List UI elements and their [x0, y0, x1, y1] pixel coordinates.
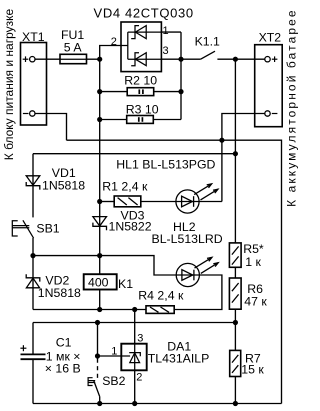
svg-text:47 к: 47 к — [244, 295, 267, 309]
node R7 bottom — [233, 401, 238, 406]
svg-text:SB2: SB2 — [102, 374, 125, 388]
svg-text:R2 10: R2 10 — [124, 74, 157, 88]
emission arrows HL1 — [194, 184, 211, 195]
wire relay coil bottom — [99, 290, 101, 310]
polarity sign XT1 minus — [23, 113, 29, 115]
wire SB1 rail through VD2 to relay rail — [32, 256, 34, 310]
wire R5 to R6 — [234, 267, 236, 278]
diode VD4 upper — [131, 26, 139, 39]
wire pin3 — [161, 58, 181, 60]
resistor R6 — [229, 278, 241, 309]
diode VD3 — [93, 217, 107, 231]
wire R6 to R7 — [234, 309, 236, 350]
svg-text:3: 3 — [163, 45, 169, 57]
power marks resistor R4 — [150, 307, 159, 312]
node relay bottom — [97, 307, 102, 312]
power marks resistor R7 — [232, 355, 238, 363]
resistor R3 — [127, 116, 154, 124]
terminal block XT1 — [21, 43, 47, 126]
diode VD4 lower — [131, 53, 139, 66]
wire DA1 pin2 down — [134, 370, 136, 403]
svg-text:HL1 BL-L513PGD: HL1 BL-L513PGD — [116, 157, 215, 171]
power marks resistor R1 — [118, 198, 239, 373]
svg-text:R5*: R5* — [243, 242, 264, 256]
terminal block XT2 — [255, 45, 283, 127]
internal common cathode bus — [127, 32, 129, 59]
wire XT1 minus drop — [35, 114, 67, 141]
fuse FU1 — [60, 54, 87, 63]
terminal XT2 minus — [265, 111, 270, 116]
svg-text:C1: C1 — [56, 335, 72, 349]
svg-text:15 к: 15 к — [241, 362, 264, 376]
polarity sign XT2 plus — [272, 58, 278, 60]
terminal XT1 minus — [30, 111, 35, 116]
wire R1 left — [100, 201, 115, 203]
wire SB2 bottom — [99, 397, 101, 404]
svg-text:3: 3 — [137, 333, 143, 345]
node R1 left — [97, 199, 102, 204]
node R6/R7 divider — [233, 320, 238, 325]
svg-text:5 A: 5 A — [64, 40, 83, 54]
svg-text:K1.1: K1.1 — [195, 34, 220, 48]
svg-text:VD4 42CTQ030: VD4 42CTQ030 — [94, 6, 194, 21]
LED HL2 — [176, 257, 218, 286]
svg-text:BL-L513LRD: BL-L513LRD — [152, 232, 223, 246]
node DA1 pin1 — [95, 353, 100, 358]
svg-text:1N5818: 1N5818 — [42, 178, 85, 192]
resistor R4 — [146, 306, 174, 314]
svg-text:SB1: SB1 — [36, 221, 59, 235]
node minus rail x XT2 minus — [219, 138, 224, 143]
svg-text:1 к: 1 к — [245, 255, 261, 269]
node K1.1 out / XT2+ — [233, 57, 238, 62]
wire pin1 — [161, 31, 181, 33]
relay coil K1 — [84, 274, 117, 289]
svg-text:× 16 В: × 16 В — [45, 362, 81, 376]
svg-text:1: 1 — [163, 25, 169, 37]
wire C1 rail — [33, 322, 235, 324]
wire relay rail — [33, 309, 146, 311]
resistor R5 — [229, 243, 241, 267]
svg-text:TL431AILP: TL431AILP — [148, 351, 210, 365]
svg-text:R3 10: R3 10 — [126, 103, 159, 117]
node DA1 pin2 bottom — [132, 401, 137, 406]
contact blade K1.1 — [201, 51, 215, 59]
pushbutton SB2 actuator — [88, 378, 95, 386]
terminal XT1 plus — [30, 57, 35, 62]
power marks resistor R2 — [139, 89, 143, 121]
svg-text:К аккумуляторной батарее: К аккумуляторной батарее — [284, 8, 298, 207]
wire C1 top — [32, 323, 34, 355]
wire R2 left — [100, 91, 128, 93]
wire DA1 pin3 drop — [134, 310, 136, 344]
wire VD1 column top through diode to SB1 — [32, 154, 34, 218]
svg-text:2: 2 — [136, 372, 142, 384]
node SB1 bottom — [30, 253, 35, 258]
LED HL1 — [176, 184, 218, 213]
wire central column fuse junction down through VD3 to relay coil — [99, 59, 101, 274]
pushbutton SB1 — [12, 220, 33, 238]
dual schottky VD4 internals — [128, 26, 162, 66]
polarity sign XT1 plus — [20, 56, 277, 351]
wire minus rail and right side rail — [67, 140, 282, 403]
wire R3 right — [153, 119, 181, 121]
diode VD1 — [26, 176, 40, 190]
wire pin2 jog up from junction — [100, 46, 128, 60]
wire fuse to junction — [87, 58, 101, 60]
wire C1 bottom — [32, 359, 34, 403]
svg-text:1N5818: 1N5818 — [38, 286, 81, 300]
node VD1 rail x battery plus — [233, 151, 238, 156]
wire bottom rail — [33, 403, 282, 405]
svg-text:1N5822: 1N5822 — [109, 220, 152, 234]
power marks resistor R6 — [232, 283, 239, 291]
wire R1 to HL1 — [141, 201, 176, 203]
dual schottky VD4 package box — [121, 22, 161, 72]
wire K1.1 left — [181, 58, 201, 60]
wire R7 bottom — [234, 377, 236, 404]
terminal XT2 plus — [265, 57, 270, 62]
node R2 left — [97, 89, 102, 94]
shunt regulator DA1 box — [121, 344, 146, 371]
polarity sign C1 plus — [20, 347, 26, 349]
wire K1.1 right to XT2+ — [217, 58, 265, 60]
svg-text:K1: K1 — [118, 277, 133, 291]
svg-text:R1 2,4 к: R1 2,4 к — [102, 179, 148, 193]
wire SB1 bottom — [32, 238, 34, 256]
node REF on C1 rail — [95, 320, 100, 325]
svg-text:XT2: XT2 — [259, 30, 282, 44]
svg-text:1: 1 — [111, 346, 117, 358]
emission arrows HL2 — [195, 257, 212, 268]
wire battery plus column K1.1 to R5 — [234, 59, 236, 243]
wire R2 right — [154, 91, 181, 93]
power marks resistor R5 — [232, 246, 239, 254]
mechanical dashed link SB2 — [97, 359, 99, 379]
resistor R7 — [230, 350, 241, 376]
wire HL1 right — [199, 201, 222, 203]
svg-text:400: 400 — [88, 276, 109, 290]
shunt regulator DA1 internals — [121, 344, 140, 371]
resistor R2 — [127, 88, 154, 96]
svg-text:R4 2,4 к: R4 2,4 к — [138, 289, 184, 303]
node SB2 bottom — [97, 401, 102, 406]
svg-text:К блоку питания и нагрузке: К блоку питания и нагрузке — [2, 8, 16, 160]
wire SB1 rail to HL2 — [33, 256, 176, 275]
node pin3 / K1.1 — [178, 57, 183, 62]
svg-text:XT1: XT1 — [22, 30, 45, 44]
capacitor C1 plates — [21, 354, 46, 359]
wire VD1 rail — [33, 153, 235, 155]
power marks resistor R3 — [138, 117, 140, 122]
wire HL2 right to R4 — [174, 275, 222, 310]
node R2 right — [178, 89, 183, 94]
node DA1 pin3 tap — [132, 307, 137, 312]
wire XT2 minus to HL1 cathode vertical — [222, 114, 265, 202]
wire REF drop to DA1 pin1 — [97, 323, 99, 357]
svg-text:2: 2 — [111, 36, 117, 48]
terminal circles — [30, 57, 271, 117]
node fuse junction — [97, 57, 102, 62]
polarity sign XT2 minus — [272, 113, 278, 115]
wire top rail XT1+ to fuse — [35, 58, 60, 60]
diode VD2 — [26, 274, 40, 288]
contact blade SB2 — [94, 380, 100, 397]
node R3 left — [97, 117, 102, 122]
wire R3 left — [100, 119, 127, 121]
resistor R1 — [114, 196, 141, 207]
wire DA1 pin1 — [98, 355, 122, 357]
node VD3 / relay top — [97, 253, 102, 258]
wire vertical pin1-pin3-R2-R3 bus — [180, 32, 182, 119]
